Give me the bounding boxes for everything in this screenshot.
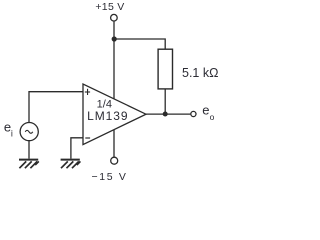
terminal -15V [111, 157, 118, 164]
wire resistor bottom to output node [164, 89, 166, 114]
wire junction to resistor top [114, 39, 165, 49]
source e_i (AC) [20, 123, 38, 141]
node output dot [163, 112, 168, 117]
wire source bottom to ground [28, 140, 30, 158]
op-amp U1 (1/4 LM139) [83, 84, 146, 145]
svg-text:−15 V: −15 V [91, 171, 125, 183]
svg-text:e: e [202, 103, 209, 118]
resistor R1 5.1k [158, 49, 172, 89]
wire +15V terminal to junction [113, 21, 115, 39]
wire source top to + input [29, 92, 83, 123]
svg-text:5.1 kΩ: 5.1 kΩ [182, 66, 218, 80]
ground G1 (under source) [19, 160, 39, 169]
terminal e_o [191, 111, 196, 116]
ground G2 (inverting input) [61, 160, 81, 169]
wire output to e_o terminal [145, 113, 190, 115]
op-amp - input label [85, 137, 90, 139]
svg-text:o: o [210, 112, 215, 122]
node junction dot top [112, 36, 117, 41]
svg-text:LM139: LM139 [87, 109, 128, 123]
svg-text:i: i [11, 128, 13, 138]
svg-text:+15 V: +15 V [95, 1, 124, 13]
op-amp + input label [85, 89, 90, 95]
source tilde [25, 130, 33, 133]
wire - input to ground [71, 138, 83, 159]
terminal +15V [111, 14, 118, 21]
wire power rail +15 to -15 (passes behind op-amp) [113, 39, 115, 157]
